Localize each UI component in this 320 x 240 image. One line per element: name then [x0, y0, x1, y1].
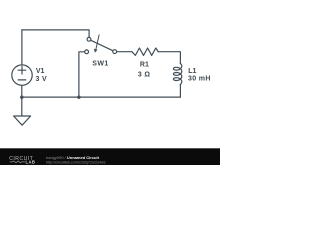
- svg-text:3 V: 3 V: [36, 76, 47, 83]
- wire battery bottom lead: [21, 85, 23, 97]
- wire ground stem: [21, 97, 23, 116]
- node junction switch leg: [77, 96, 80, 99]
- switch SW1 pivot terminal: [87, 37, 91, 41]
- wire bottom rail: [22, 96, 181, 98]
- inductor L1: [173, 64, 181, 85]
- svg-text:http://circuitlab.com/c/33q72u: http://circuitlab.com/c/33q72u/2u4wz: [46, 161, 106, 165]
- wire top rail: [22, 30, 89, 38]
- V1 minus sign: [18, 79, 26, 81]
- switch SW1 arrowhead: [94, 49, 98, 53]
- switch SW1 left terminal: [85, 50, 89, 54]
- wire inductor bottom lead: [179, 84, 181, 97]
- svg-text:L1: L1: [188, 68, 196, 75]
- node junction left: [20, 96, 23, 99]
- wire switch left leg: [79, 52, 85, 97]
- svg-text:R1: R1: [140, 62, 149, 69]
- V1 plus sign: [18, 66, 26, 74]
- switch SW1 arrow: [96, 35, 99, 49]
- footer logo resistor zigzag: [10, 161, 25, 163]
- wire switch to resistor: [117, 51, 132, 53]
- switch SW1 blade: [91, 40, 114, 51]
- svg-text:eangy990 / Unnamed Circuit: eangy990 / Unnamed Circuit: [46, 155, 100, 160]
- switch SW1 right terminal: [113, 50, 117, 54]
- svg-text:30 mH: 30 mH: [188, 75, 211, 82]
- resistor R1: [132, 48, 158, 55]
- svg-text:V1: V1: [36, 68, 45, 75]
- wire left rail (battery top lead): [21, 30, 23, 65]
- svg-text:3 Ω: 3 Ω: [138, 71, 150, 78]
- svg-text:LAB: LAB: [26, 159, 36, 164]
- ground: [14, 116, 31, 125]
- voltage source V1: [12, 65, 32, 85]
- svg-text:SW1: SW1: [92, 61, 108, 68]
- wire resistor to inductor top: [158, 52, 180, 64]
- footer bar: [0, 148, 220, 165]
